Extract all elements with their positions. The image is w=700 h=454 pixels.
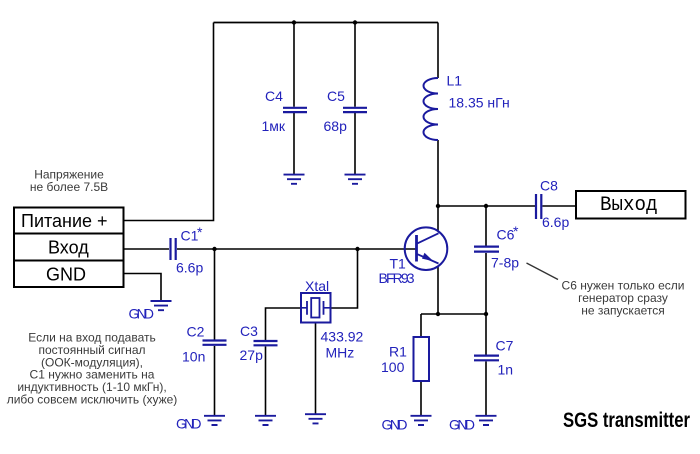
resistor R1	[381, 337, 429, 381]
output box Выход	[576, 191, 686, 219]
wire input line	[124, 248, 170, 250]
svg-text:C8: C8	[540, 178, 558, 194]
wire crystal riser	[331, 249, 358, 308]
svg-text:R1: R1	[389, 344, 407, 360]
svg-text:Xtal: Xtal	[305, 278, 329, 294]
svg-text:10n: 10n	[182, 349, 205, 365]
wire crystal bottom lead	[315, 323, 317, 414]
svg-text:BFR93: BFR93	[379, 270, 415, 286]
capacitor C3	[240, 323, 278, 363]
svg-text:GND: GND	[129, 306, 155, 322]
svg-text:18.35 нГн: 18.35 нГн	[449, 95, 510, 111]
svg-text:MHz: MHz	[326, 345, 355, 361]
svg-text:433.92: 433.92	[321, 329, 364, 345]
svg-text:GND: GND	[382, 417, 408, 433]
crystal Xtal	[301, 278, 364, 361]
ground crystal	[305, 414, 326, 423]
svg-text:Вход: Вход	[48, 238, 89, 258]
note OOK annotation	[7, 331, 178, 407]
wire top rail	[214, 22, 439, 24]
wire C4 leads	[293, 23, 295, 175]
svg-text:C1: C1	[181, 228, 199, 244]
wire C7 leads	[485, 314, 487, 415]
capacitor C7	[474, 338, 514, 378]
node power rail C4 tap	[292, 20, 296, 24]
ground R1	[382, 416, 432, 433]
wire C6 branch	[485, 206, 487, 314]
svg-text:*: *	[513, 223, 519, 239]
svg-text:7-8p: 7-8p	[491, 255, 519, 271]
svg-text:68p: 68p	[324, 118, 348, 134]
svg-text:C2: C2	[187, 324, 205, 340]
svg-text:27p: 27p	[240, 347, 264, 363]
inductor L1	[424, 73, 510, 141]
svg-text:либо совсем исключить (хуже): либо совсем исключить (хуже)	[7, 393, 178, 407]
svg-text:не более 7.5В: не более 7.5В	[30, 180, 108, 194]
svg-text:C4: C4	[265, 88, 283, 104]
node emitter rail C7	[484, 312, 488, 316]
svg-text:6.6p: 6.6p	[176, 260, 203, 276]
note C6 annotation	[562, 279, 685, 318]
svg-text:1n: 1n	[498, 362, 514, 378]
svg-text:Питание +: Питание +	[21, 211, 108, 231]
node output rail C6	[484, 204, 488, 208]
wire gnd row stub	[124, 274, 162, 301]
capacitor C5	[324, 88, 368, 134]
node emitter rail left	[436, 312, 440, 316]
node output rail collector	[436, 204, 440, 208]
note C6 annotation pointer	[527, 263, 559, 280]
ground C4	[284, 175, 305, 184]
wire output rail	[438, 205, 535, 207]
svg-text:GND: GND	[176, 416, 202, 432]
capacitor C4	[262, 88, 308, 134]
wire power riser	[124, 23, 214, 221]
svg-text:6.6p: 6.6p	[542, 214, 569, 230]
capacitor C8	[536, 178, 569, 231]
svg-text:L1: L1	[447, 73, 463, 89]
wire L1 top lead	[437, 23, 439, 79]
transistor T1	[379, 227, 448, 286]
svg-text:C7: C7	[496, 338, 514, 354]
wire C8 to output box	[543, 205, 577, 207]
capacitor C2	[182, 324, 227, 365]
svg-text:GND: GND	[46, 265, 86, 285]
wire emitter down	[437, 266, 439, 314]
svg-text:C3: C3	[240, 323, 258, 339]
svg-text:C6: C6	[497, 227, 515, 243]
node input C1 junction	[212, 247, 216, 251]
wire L1 bottom lead to collector	[437, 140, 439, 231]
svg-text:SGS transmitter: SGS transmitter	[563, 408, 690, 432]
ground C7	[449, 416, 497, 433]
svg-text:1мк: 1мк	[262, 118, 286, 134]
svg-text:*: *	[197, 224, 203, 240]
terminal block	[14, 208, 124, 288]
wire emitter rail	[421, 313, 486, 315]
wire C2 leads	[214, 249, 216, 415]
capacitor C6	[474, 223, 519, 271]
svg-text:не запускается: не запускается	[581, 303, 665, 317]
wire crystal left lead to C3	[266, 308, 302, 415]
svg-text:100: 100	[381, 359, 405, 375]
node power rail C5 tap	[353, 20, 357, 24]
ground terminal block	[129, 301, 172, 322]
ground C3	[255, 416, 276, 425]
wire input line after C1	[177, 248, 416, 250]
ground C2	[176, 416, 225, 432]
node crystal branch junction	[355, 247, 359, 251]
capacitor C1	[171, 224, 204, 276]
wire C5 leads	[354, 23, 356, 175]
ground C5	[345, 175, 366, 184]
svg-text:Выход: Выход	[600, 194, 658, 217]
svg-text:GND: GND	[449, 417, 475, 433]
svg-text:C5: C5	[327, 88, 345, 104]
wire R1 leads	[420, 314, 422, 415]
note voltage annotation	[30, 168, 108, 194]
